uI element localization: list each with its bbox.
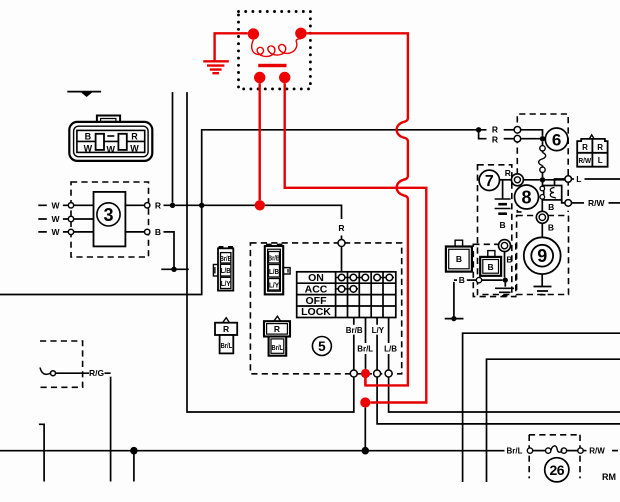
svg-text:B: B: [506, 254, 512, 264]
svg-text:R/W: R/W: [588, 198, 606, 208]
svg-text:R/W: R/W: [589, 447, 605, 456]
svg-text:7: 7: [485, 173, 494, 190]
svg-text:R: R: [492, 135, 498, 145]
svg-text:W: W: [51, 200, 60, 210]
svg-text:W: W: [51, 214, 60, 224]
svg-text:L/B: L/B: [269, 267, 279, 276]
svg-text:3: 3: [103, 205, 113, 225]
svg-text:LOCK: LOCK: [301, 306, 331, 318]
svg-text:R: R: [597, 143, 603, 152]
svg-text:B: B: [488, 262, 494, 272]
svg-text:L/B: L/B: [384, 344, 397, 353]
svg-text:9: 9: [537, 246, 547, 266]
svg-text:L/B: L/B: [221, 266, 231, 275]
svg-text:B: B: [500, 220, 506, 230]
svg-text:Br/L: Br/L: [507, 447, 523, 456]
svg-text:W: W: [51, 227, 60, 237]
svg-text:Br/B: Br/B: [220, 254, 232, 263]
svg-text:B: B: [548, 223, 554, 233]
svg-text:8: 8: [521, 187, 531, 207]
svg-text:B: B: [85, 132, 92, 142]
svg-text:5: 5: [318, 339, 326, 354]
svg-text:R: R: [582, 143, 588, 152]
svg-text:RM: RM: [602, 472, 616, 482]
svg-text:R: R: [155, 200, 161, 210]
svg-text:OFF: OFF: [306, 295, 328, 307]
svg-text:L: L: [576, 174, 581, 184]
svg-text:ACC: ACC: [305, 283, 328, 295]
svg-text:R/W: R/W: [579, 156, 592, 165]
svg-text:Br/L: Br/L: [221, 341, 233, 350]
svg-text:26: 26: [550, 462, 565, 478]
svg-text:B: B: [456, 254, 462, 264]
svg-text:L/Y: L/Y: [372, 326, 385, 335]
svg-text:Br/L: Br/L: [357, 344, 373, 353]
svg-text:R: R: [274, 324, 280, 334]
svg-text:R: R: [492, 124, 498, 134]
svg-text:R/G: R/G: [89, 368, 105, 378]
svg-text:W: W: [130, 144, 139, 154]
svg-text:L: L: [598, 156, 603, 165]
svg-text:Br/L: Br/L: [272, 343, 284, 352]
svg-text:R: R: [131, 132, 138, 142]
svg-text:L/Y: L/Y: [269, 281, 279, 290]
svg-text:6: 6: [552, 130, 561, 149]
svg-text:R: R: [223, 324, 229, 334]
svg-text:Br/B: Br/B: [346, 326, 363, 335]
svg-text:W: W: [107, 145, 116, 155]
svg-text:L/Y: L/Y: [221, 279, 231, 288]
svg-text:Br/B: Br/B: [268, 254, 280, 263]
svg-text:R: R: [505, 168, 511, 178]
svg-text:R: R: [338, 223, 344, 233]
svg-text:B: B: [548, 202, 554, 212]
svg-text:W: W: [84, 144, 93, 154]
svg-text:B: B: [155, 227, 161, 237]
svg-text:ON: ON: [308, 272, 324, 284]
svg-text:B: B: [459, 275, 465, 285]
